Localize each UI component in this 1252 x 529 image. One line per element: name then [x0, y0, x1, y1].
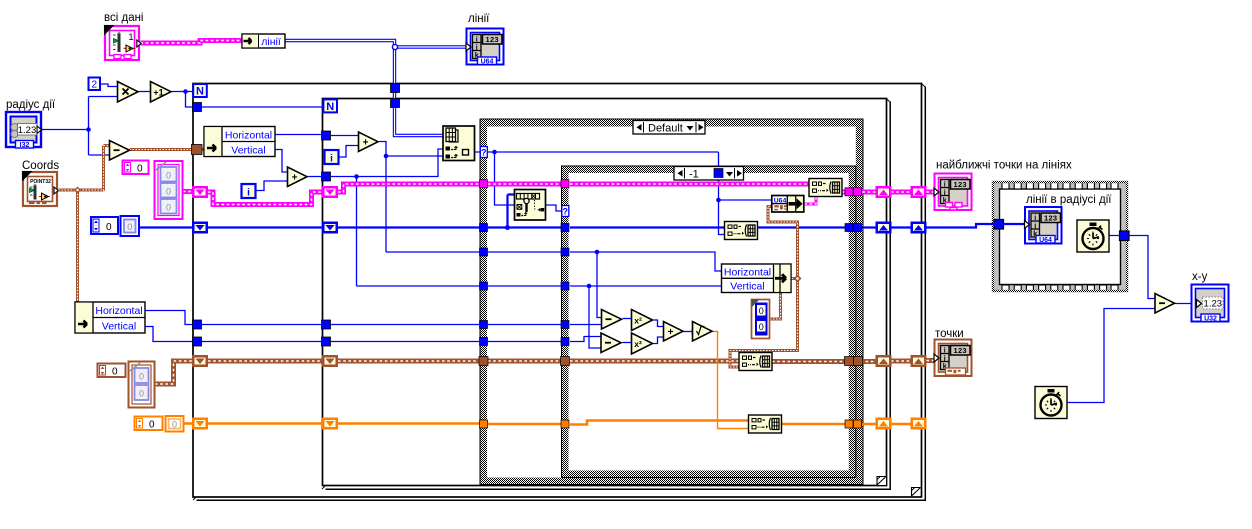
wire: clock2 to subtract: [1068, 309, 1156, 403]
build array node brown: [739, 353, 772, 371]
case tunnel blue main left outer: [480, 224, 488, 232]
control terminal всі дані: [104, 25, 141, 60]
U64 bundle node: [772, 196, 804, 213]
wire: inner add output to index array and down: [379, 142, 443, 253]
cluster constant 0 0: [752, 300, 770, 339]
outer for loop: [193, 84, 925, 501]
local variable лінії: [242, 34, 285, 48]
svg-text:Vertical: Vertical: [102, 321, 136, 333]
shift register right inner pink: [876, 186, 892, 198]
inner case selector terminal: [562, 206, 569, 217]
pink cluster array constant display: [155, 161, 183, 219]
svg-text:x²: x²: [634, 316, 642, 326]
case tunnel brown left outer: [479, 357, 488, 366]
svg-text:лінії: лінії: [468, 13, 490, 25]
shift register right inner brown: [876, 355, 892, 367]
index array node: [443, 126, 475, 161]
svg-text:0: 0: [137, 164, 143, 175]
tunnel: lines array into outer loop top: [391, 84, 400, 93]
svg-text:0: 0: [139, 372, 144, 382]
inner loop N terminal: [323, 99, 337, 113]
control terminal Coords: [22, 171, 58, 206]
wire: cluster constant 0 0 to bundle: [770, 293, 781, 320]
svg-text:0: 0: [127, 222, 132, 232]
wire: inner i to inner add: [339, 146, 359, 158]
wire: pink array through loops into case: [208, 184, 810, 205]
blue array element constant: [121, 216, 140, 236]
wire: subtract to x-y indicator: [1175, 303, 1192, 305]
search 1D array node: [515, 190, 546, 221]
tunnel: lines array into inner loop top: [391, 99, 400, 108]
wire: search array input from main blue: [505, 195, 515, 231]
control terminal радіус дії: [6, 112, 42, 149]
outer for loop fold corner: [912, 488, 921, 497]
svg-text:0: 0: [759, 322, 764, 332]
case tunnel pink left inner: [561, 180, 569, 188]
svg-text:?: ?: [563, 207, 569, 217]
wire: square root to orange build array: [713, 332, 749, 429]
shift register right inner blue: [876, 222, 892, 234]
svg-text:?: ?: [481, 148, 487, 158]
clock tick count node: [1035, 387, 1067, 419]
svg-text:Coords: Coords: [22, 160, 59, 172]
build array node pink: [809, 179, 842, 197]
unbundle by name 1: [204, 127, 275, 157]
multiply node: [118, 82, 139, 103]
shift register right outer brown: [911, 355, 927, 367]
svg-text:0: 0: [166, 187, 171, 197]
outer case selector terminal: [480, 147, 487, 158]
svg-text:POINT32: POINT32: [30, 179, 51, 185]
svg-text:2: 2: [92, 80, 98, 91]
outer loop i terminal: [242, 184, 256, 199]
wire: index array output to case selector and inner selector tunnel: [475, 150, 719, 205]
svg-text:x-y: x-y: [1192, 271, 1208, 283]
bundle by name: [722, 264, 792, 293]
shift register left inner brown: [322, 355, 338, 367]
shift register right outer pink: [911, 186, 927, 198]
wire: outer add chain to Vertical input and subtract 2: [357, 284, 722, 348]
wire: unbundle2 Vertical to tunnel: [145, 327, 193, 342]
wire: Vertical coord to subtract 2: [330, 337, 601, 342]
build array node blue: [725, 222, 758, 240]
wire: U64 bundle output to build array (magenta cluster): [804, 197, 816, 205]
wire: square2 to add: [654, 337, 664, 344]
wire: brown cluster array constant to shift register: [155, 361, 192, 384]
indicator terminal найближчі точки на лініях: [934, 174, 972, 211]
wire: clock1 to sequence edge and subtract: [1109, 236, 1155, 299]
subtract node 1: [602, 310, 622, 330]
tunnel: N value into outer loop: [193, 103, 202, 112]
wire: brown cluster array through loops and cases: [208, 361, 935, 362]
svg-text:Horizontal: Horizontal: [95, 305, 142, 317]
case tunnel orange left inner: [561, 420, 569, 428]
svg-text:1.23: 1.23: [1204, 299, 1223, 310]
square node 2: [632, 333, 653, 354]
wire: multiply to increment: [139, 91, 151, 93]
tunnel: horizontal into outer loop: [193, 320, 202, 329]
svg-text:лінії: лінії: [261, 36, 281, 48]
svg-text:+: +: [668, 327, 674, 338]
shift register left outer brown: [192, 355, 208, 367]
outer add node: [288, 167, 308, 187]
indicator terminal лінії в радіусі дії: [1025, 207, 1062, 244]
svg-text:Horizontal: Horizontal: [225, 130, 272, 142]
pink array index constant: [123, 161, 149, 175]
svg-text:-1: -1: [689, 168, 699, 180]
wire: outer i to outer add: [256, 181, 288, 191]
wire: subtract output to loop tunnel (brown cluster): [130, 148, 206, 151]
inner for loop: [322, 99, 890, 490]
svg-text:U64: U64: [774, 198, 787, 205]
wire: inner add chain to Horizontal input and subtract 1: [386, 250, 722, 318]
square node 1: [632, 310, 653, 331]
svg-text:Default: Default: [648, 122, 683, 134]
svg-text:x²: x²: [634, 339, 642, 349]
wire: constant 2 to multiply: [100, 84, 117, 87]
svg-text:0: 0: [139, 389, 144, 399]
tunnel: horizontal across inner loop: [322, 320, 331, 329]
inner add node: [359, 132, 379, 152]
case tunnel blue h-sum left outer: [480, 248, 488, 256]
indicator terminal x-y: [1192, 285, 1229, 323]
wire: tunnel to index array top index and down: [331, 149, 443, 286]
tunnel: sum into inner loop: [322, 172, 331, 181]
shift register right outer orange: [911, 418, 927, 430]
wire: search output to inner case selector: [546, 205, 562, 211]
subtract node 2: [601, 333, 621, 353]
case tunnels orange right: [845, 420, 862, 428]
svg-text:0: 0: [172, 420, 177, 430]
shift register left outer blue: [192, 222, 208, 234]
svg-text:U32: U32: [1204, 316, 1217, 323]
svg-text:U64: U64: [481, 59, 494, 66]
case tunnel blue v-sum left inner: [561, 282, 569, 290]
shift register left outer pink: [192, 186, 208, 198]
wire: pink constant to shift register: [183, 189, 193, 194]
svg-text:0: 0: [759, 306, 764, 316]
wire: add to square root with coercion dot: [684, 329, 696, 335]
svg-text:лінії в радіусі дії: лінії в радіусі дії: [1026, 194, 1112, 206]
inner case structure border: [562, 166, 856, 478]
wire: subtract1 to square1: [623, 318, 632, 320]
wire: Coords output (brown cluster): [59, 146, 111, 303]
subtract node radius: [110, 141, 130, 161]
case tunnel blue v-sum left outer: [480, 282, 488, 290]
wire: local variable to лінії indicator (blue 2D array): [285, 41, 466, 136]
increment node: [151, 82, 172, 103]
shift register left inner orange: [322, 418, 338, 430]
svg-text:Vertical: Vertical: [730, 281, 764, 293]
case tunnel orange left outer: [480, 420, 488, 428]
blue array index constant: [91, 217, 118, 234]
svg-text:всі дані: всі дані: [104, 12, 144, 24]
brown array index constant: [98, 364, 126, 378]
shift register right inner orange: [876, 418, 892, 430]
shift register left outer orange: [192, 418, 208, 430]
svg-text:i: i: [330, 154, 333, 165]
shift register left inner pink: [322, 186, 338, 198]
wire: square1 to add: [654, 320, 664, 327]
svg-text:N: N: [196, 86, 204, 98]
wire: всі дані to local variable (pink cluster array): [141, 41, 243, 44]
case tunnel blue horizontal left inner: [561, 321, 569, 329]
svg-text:+1: +1: [153, 87, 163, 97]
tunnel: coords cluster into outer loop: [192, 145, 203, 155]
outer case label Default: [633, 121, 705, 135]
inner for loop fold corner: [877, 477, 886, 486]
unbundle by name 2: [75, 302, 145, 333]
svg-text:0: 0: [166, 171, 171, 181]
case tunnel blue horizontal left outer: [480, 321, 488, 329]
svg-text:+: +: [363, 138, 369, 149]
wire: pink build array output to shift registers and indicator: [842, 190, 936, 195]
tunnel: vertical across inner loop: [322, 337, 331, 346]
brown cluster array constant display: [129, 362, 155, 408]
constant 2: [89, 78, 101, 91]
indicator terminal точки: [934, 340, 972, 377]
wire: Horizontal coord to subtract 1: [330, 324, 602, 326]
wire: increment to N and tunnel: [172, 89, 194, 107]
svg-text:0: 0: [112, 367, 118, 378]
wire: радіус дії output: [42, 97, 118, 156]
orange array index constant: [135, 417, 163, 431]
clock wait node: [1077, 220, 1109, 252]
wire: bundle output cluster to U64 bundle and brown build array: [730, 207, 802, 368]
wire: N count into inner loop: [202, 106, 324, 108]
case tunnel pink left outer: [480, 180, 488, 188]
wire: main blue array through loops and cases: [208, 224, 995, 228]
outer case structure border: [480, 119, 863, 485]
flat sequence structure frame: [992, 181, 1129, 292]
svg-text:i: i: [247, 188, 250, 199]
wire: orange array through loops and cases: [208, 421, 911, 425]
wire: Horizontal/Vertical across outer loop: [201, 325, 322, 342]
wire: outer add to inner loop tunnel: [306, 176, 323, 178]
tunnel: vertical into outer loop: [193, 337, 202, 346]
svg-text:0: 0: [106, 222, 112, 233]
case tunnel blue vertical left outer: [480, 338, 488, 346]
case tunnels brown right: [845, 357, 863, 366]
case tunnel blue vertical left inner: [561, 338, 569, 346]
shift register left inner blue: [322, 222, 338, 234]
wire: sequence tunnel to indicator: [1003, 223, 1025, 225]
tunnel: horizontal row into inner loop: [322, 131, 331, 140]
shift register right outer blue: [911, 222, 927, 234]
wire: blue array constant to shift register: [139, 226, 193, 228]
svg-text:0: 0: [166, 203, 171, 213]
wire: orange array constant to shift register: [184, 422, 192, 425]
svg-text:N: N: [326, 101, 334, 113]
case tunnel brown left inner: [561, 357, 570, 366]
svg-text:U64: U64: [1039, 237, 1052, 244]
case tunnel blue main left inner: [561, 224, 569, 232]
svg-text:Vertical: Vertical: [231, 145, 265, 157]
inner loop i terminal: [325, 150, 339, 165]
svg-text:точки: точки: [935, 328, 964, 340]
add node distance: [664, 322, 684, 342]
wire: selector value into inner case, to bundle and build array: [716, 152, 771, 235]
wire: unbundle Horizontal to inner loop tunnel: [275, 134, 322, 136]
orange array element constant: [166, 416, 184, 432]
svg-text:1: 1: [129, 32, 134, 42]
subtract node time: [1155, 294, 1175, 314]
svg-text:+: +: [292, 173, 298, 184]
build array node orange: [749, 415, 782, 433]
svg-text:радіус дії: радіус дії: [6, 99, 56, 111]
case tunnels blue right: [845, 224, 862, 232]
wire: unbundle2 Horizontal to tunnel: [145, 311, 193, 325]
square root node: [693, 322, 713, 342]
svg-text:0: 0: [149, 420, 155, 431]
indicator terminal лінії: [466, 29, 504, 66]
case tunnel blue h-sum left inner: [561, 248, 569, 256]
outer loop N terminal: [193, 84, 207, 98]
wire: tunnel to inner add top: [331, 135, 359, 137]
svg-text:Horizontal: Horizontal: [724, 267, 771, 279]
wire: unbundle Vertical to outer add: [275, 150, 288, 173]
svg-text:1.23: 1.23: [18, 125, 37, 136]
wire: subtract2 to square2: [623, 342, 632, 344]
inner case label -1: [674, 167, 744, 181]
svg-text:найближчі точки на лініях: найближчі точки на лініях: [936, 160, 1072, 172]
svg-text:I32: I32: [20, 142, 30, 149]
case tunnels pink right: [845, 188, 862, 196]
